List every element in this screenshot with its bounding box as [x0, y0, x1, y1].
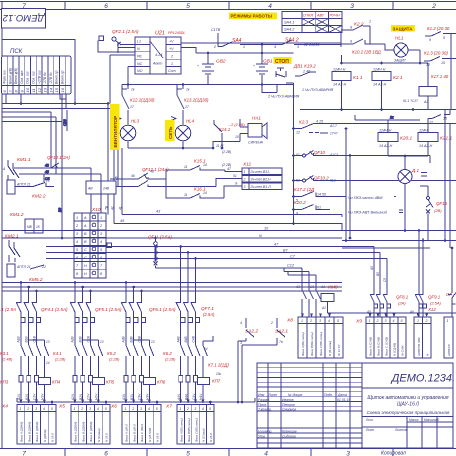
frame bottom — [0, 449, 456, 456]
svg-text:3: 3 — [194, 407, 196, 411]
svg-text:Н4Ч: Н4Ч — [199, 393, 203, 400]
svg-text:N (ДВ4К): N (ДВ4К) — [43, 429, 47, 442]
svg-text:5: 5 — [186, 451, 190, 456]
K16.1 contact — [178, 186, 242, 198]
svg-text:1: 1 — [243, 45, 245, 49]
connector X11 — [227, 162, 282, 190]
svg-text:Alarm: Alarm — [152, 62, 162, 66]
svg-text:К20.1: К20.1 — [400, 136, 412, 142]
svg-text:А2: А2 — [321, 306, 326, 310]
svg-text:4: 4 — [148, 407, 150, 411]
KM1.1 contactor contacts — [2, 157, 31, 180]
switch SA2.1 — [242, 318, 288, 402]
svg-text:PE: PE — [137, 55, 142, 59]
svg-text:13: 13 — [100, 340, 104, 344]
svg-text:КМ8: КМ8 — [328, 285, 338, 291]
svg-text:11: 11 — [184, 165, 188, 169]
svg-text:Х5: Х5 — [58, 404, 65, 410]
node wire y53 — [196, 53, 294, 85]
stamp DEMO rotated box top-left — [2, 9, 46, 29]
svg-text:ЩАУ-16.0: ЩАУ-16.0 — [397, 402, 419, 408]
KM1 coil — [7, 180, 15, 194]
terminal strip X6 — [110, 404, 161, 445]
svg-text:(2.2В): (2.2В) — [165, 358, 176, 362]
K13.2 contact above HL4 — [177, 85, 209, 149]
svg-text:С1В: С1В — [32, 335, 36, 342]
svg-text:14: 14 — [48, 87, 53, 92]
svg-text:КП6: КП6 — [157, 380, 166, 385]
svg-text:Фаза А (САВ): Фаза А (САВ) — [369, 337, 373, 356]
svg-text:1: 1 — [74, 407, 76, 411]
svg-text:ДЕМО.12: ДЕМО.12 — [2, 12, 45, 23]
label РЕЖИМЫ РАБОТЫ — [229, 13, 277, 20]
svg-text:Щиток автоматики и управления: Щиток автоматики и управления — [367, 395, 449, 401]
contact K2.3 — [294, 120, 456, 136]
coil bracket wiring — [355, 110, 450, 170]
svg-text:+: + — [197, 64, 199, 68]
lamp HL3 — [116, 117, 140, 141]
svg-text:А1-?: А1-? — [329, 124, 337, 128]
svg-text:С12: С12 — [287, 264, 295, 268]
svg-text:Фаза В (ДВ4К): Фаза В (ДВ4К) — [27, 422, 31, 442]
svg-text:15: 15 — [441, 61, 445, 65]
svg-text:К10.2 (2В 1ВД: К10.2 (2В 1ВД — [352, 50, 381, 55]
svg-text:5: 5 — [443, 36, 445, 40]
svg-text:14 А2-Н: 14 А2-Н — [373, 83, 387, 87]
svg-text:51: 51 — [233, 174, 237, 178]
svg-text:КП3: КП3 — [0, 380, 9, 385]
breaker QF10-1 — [294, 150, 431, 157]
svg-text:Подп.: Подп. — [324, 393, 333, 397]
svg-text:Х6: Х6 — [110, 404, 117, 410]
frame top header — [0, 2, 456, 10]
svg-text:КМ2.1: КМ2.1 — [5, 234, 19, 240]
svg-text:СЕТЬ: СЕТЬ — [168, 126, 173, 139]
svg-text:12: 12 — [296, 131, 300, 135]
frame left edge — [1, 10, 3, 449]
svg-text:3: 3 — [89, 407, 91, 411]
PSK terminal block — [2, 49, 72, 94]
KM5.2 label — [29, 277, 43, 283]
svg-text:С4Ч: С4Ч — [192, 393, 196, 400]
svg-text:С2В: С2В — [86, 335, 90, 342]
wire drops from PSK — [6, 94, 66, 109]
svg-text:(2В): (2В) — [434, 208, 442, 213]
svg-text:14 А2-Н: 14 А2-Н — [379, 144, 393, 148]
svg-text:4: 4 — [43, 407, 45, 411]
svg-text:(2.2В): (2.2В) — [222, 150, 231, 154]
terminal strip X9 — [355, 317, 406, 358]
svg-text:14: 14 — [203, 163, 207, 167]
svg-text:В1Ч: В1Ч — [25, 393, 29, 400]
svg-text:N (СДАВ): N (СДАВ) — [393, 343, 397, 356]
svg-text:6: 6 — [104, 451, 108, 456]
svg-text:(2.2В): (2.2В) — [109, 358, 120, 362]
svg-text:А5: А5 — [370, 266, 374, 271]
svg-text:АВТ: АВТ — [316, 14, 325, 18]
svg-text:Com: Com — [168, 69, 176, 73]
svg-text:6: 6 — [104, 3, 108, 10]
svg-text:А1С?: А1С? — [329, 153, 338, 157]
svg-text:Н: Н — [84, 272, 87, 276]
svg-text:5: 5 — [186, 3, 190, 10]
svg-text:Фаза А (ДВ5К): Фаза А (ДВ5К) — [74, 422, 78, 442]
svg-text:Зч-тел.В31-: Зч-тел.В31- — [251, 170, 271, 174]
svg-text:22: 22 — [45, 179, 50, 183]
svg-text:Фаза А (ДВ4К): Фаза А (ДВ4К) — [20, 422, 24, 442]
svg-text:17: 17 — [185, 105, 189, 109]
svg-text:42: 42 — [110, 206, 114, 210]
svg-text:Фаза В(ВК,сеть): Фаза В(ВК,сеть) — [310, 332, 314, 356]
svg-text:К2.1: К2.1 — [393, 75, 403, 81]
svg-text:14: 14 — [203, 191, 207, 195]
breaker QF7.1 branch 4 — [176, 245, 230, 403]
svg-text:К20.2: К20.2 — [294, 200, 306, 205]
svg-text:2: 2 — [431, 3, 436, 10]
svg-text:КМ1.2: КМ1.2 — [10, 212, 24, 218]
svg-text:Фаза В (ДВ5К): Фаза В (ДВ5К) — [81, 422, 85, 442]
svg-text:N 16.0: N 16.0 — [51, 433, 55, 442]
svg-text:В3В: В3В — [130, 336, 134, 343]
contact K17.2 — [294, 187, 397, 203]
svg-text:Схема электрическая принципиал: Схема электрическая принципиальная — [367, 410, 450, 415]
svg-text:Осв. сш: Осв. сш — [32, 71, 36, 84]
relay coil K1.1 — [332, 63, 363, 110]
svg-text:1к: 1к — [186, 88, 190, 92]
svg-text:А3В: А3В — [122, 336, 126, 344]
svg-text:Вент.у(В): Вент.у(В) — [14, 68, 18, 84]
svg-text:10к: 10к — [216, 372, 222, 376]
svg-text:13: 13 — [43, 87, 48, 92]
terminal strip X12 — [414, 317, 431, 358]
svg-text:QF10: QF10 — [314, 150, 326, 155]
svg-text:+V: +V — [169, 40, 174, 44]
svg-text:QF16: QF16 — [436, 201, 448, 206]
PSU block 24V — [86, 181, 116, 194]
svg-text:№ докум.: № докум. — [288, 393, 303, 397]
K15/K16 branch wiring — [158, 170, 242, 198]
svg-text:14: 14 — [204, 347, 208, 351]
svg-text:ВЕНТИЛЯТОР: ВЕНТИЛЯТОР — [113, 116, 118, 148]
svg-text:С: С — [84, 248, 87, 252]
svg-text:Х12: Х12 — [427, 307, 436, 312]
breaker QF3.1 partial label — [0, 307, 16, 312]
contactor KM8 — [284, 268, 342, 317]
contact K20.2 — [294, 200, 404, 216]
switch SA2.2 — [238, 318, 258, 402]
svg-text:А3: А3 — [295, 285, 300, 289]
svg-text:ЗАЩИТА: ЗАЩИТА — [393, 26, 414, 31]
svg-text:1: 1 — [20, 407, 22, 411]
long wire bundle center — [2, 227, 456, 259]
breaker QF17 partial right edge — [446, 247, 456, 317]
svg-text:Фаза С(В5,сеть): Фаза С(В5,сеть) — [194, 418, 198, 442]
svg-text:5: 5 — [105, 407, 107, 411]
wire C12 step — [287, 264, 295, 268]
svg-text:3: 3 — [319, 319, 321, 323]
svg-text:АПТЛ 21: АПТЛ 21 — [16, 183, 31, 187]
svg-text:А4В: А4В — [177, 336, 181, 344]
svg-text:К1.2 (20 30: К1.2 (20 30 — [427, 26, 450, 31]
svg-text:41: 41 — [118, 206, 122, 210]
svg-text:Фаза С(ВБ,сеть): Фаза С(ВБ,сеть) — [319, 332, 323, 356]
svg-text:АПТЛ 21: АПТЛ 21 — [16, 265, 31, 269]
svg-text:РУЧН: РУЧН — [330, 14, 340, 18]
yellow label SET — [165, 120, 175, 141]
svg-text:Зч-тел.В21+: Зч-тел.В21+ — [251, 178, 271, 182]
wire bus under PSK — [2, 103, 108, 105]
svg-text:4: 4 — [240, 321, 242, 325]
svg-text:4: 4 — [268, 3, 272, 10]
svg-text:К1.1 ?С1?: К1.1 ?С1? — [403, 99, 418, 103]
relay coil K20.1 — [378, 129, 412, 149]
svg-text:46: 46 — [131, 174, 135, 178]
svg-text:А1В: А1В — [17, 336, 21, 344]
svg-text:16: 16 — [60, 87, 65, 92]
svg-text:3: 3 — [350, 3, 354, 10]
K12.2 contact above HL3 — [122, 85, 155, 149]
svg-text:2: 2 — [270, 321, 273, 325]
svg-text:+27В сш: +27В сш — [37, 70, 41, 84]
svg-text:QF8.1: QF8.1 — [396, 295, 409, 300]
svg-text:QF7.1: QF7.1 — [201, 306, 214, 311]
svg-text:5: 5 — [209, 407, 211, 411]
svg-text:Вент.пр: Вент.пр — [61, 70, 65, 84]
svg-text:4: 4 — [264, 451, 268, 456]
svg-text:24В: 24В — [102, 187, 110, 191]
svg-text:7: 7 — [22, 451, 26, 456]
STOP button — [274, 57, 292, 77]
svg-text:9: 9 — [350, 26, 352, 30]
svg-text:N (Сдвиг): N (Сдвиг) — [97, 428, 101, 442]
svg-text:А: А — [83, 216, 87, 220]
K1.3 contact — [424, 51, 456, 68]
svg-text:Лит.: Лит. — [365, 418, 374, 422]
svg-text:Н.контр.: Н.контр. — [258, 430, 272, 434]
svg-text:1: 1 — [447, 319, 449, 323]
svg-text:А1: А1 — [320, 285, 325, 289]
svg-text:-27В бс: -27В бс — [49, 72, 53, 84]
svg-text:Фаза С (ДВ4К): Фаза С (ДВ4К) — [35, 422, 39, 442]
svg-text:АВ: АВ — [87, 187, 93, 191]
svg-text:5: 5 — [51, 407, 53, 411]
svg-text:Фаза С (ДВ5К): Фаза С (ДВ5К) — [89, 422, 93, 442]
svg-text:Х11: Х11 — [242, 162, 252, 168]
wires K1.1/K2.1 — [300, 55, 456, 110]
yellow label VENTILATOR — [110, 104, 120, 150]
breaker QF8.1 — [366, 247, 409, 318]
svg-text:С1Ч: С1Ч — [33, 393, 37, 400]
svg-text:К21.1: К21.1 — [440, 136, 452, 142]
svg-text:КМ2.2: КМ2.2 — [32, 194, 46, 200]
QF10.1 small breaker mid-left — [47, 155, 70, 168]
svg-text:5: 5 — [337, 319, 339, 323]
svg-text:Х4: Х4 — [1, 404, 8, 410]
svg-text:14 А2-Н: 14 А2-Н — [419, 144, 433, 148]
siren HA1 — [228, 116, 267, 145]
svg-text:2: 2 — [376, 319, 379, 323]
svg-text:GB2: GB2 — [216, 59, 226, 65]
svg-text:11: 11 — [31, 88, 36, 92]
svg-text:С4В: С4В — [191, 335, 195, 342]
svg-text:Осв. сш: Осв. сш — [26, 71, 30, 84]
svg-text:Фаза А(В5,сеть): Фаза А(В5,сеть) — [180, 418, 184, 442]
svg-text:47: 47 — [227, 167, 231, 171]
svg-text:N: N — [259, 234, 262, 238]
svg-text:14 А2-Н: 14 А2-Н — [333, 83, 347, 87]
svg-text:13: 13 — [151, 340, 155, 344]
svg-text:ДЕМО.1234.: ДЕМО.1234. — [390, 373, 455, 385]
svg-text:L1: L1 — [137, 40, 141, 44]
svg-text:3: 3 — [297, 45, 299, 49]
svg-text:(2.4В): (2.4В) — [2, 358, 13, 362]
svg-text:1: 1 — [171, 62, 173, 66]
svg-text:1: 1 — [417, 319, 419, 323]
svg-text:(2А): (2А) — [398, 301, 406, 306]
svg-text:В2Ч: В2Ч — [79, 393, 83, 400]
svg-text:2: 2 — [186, 407, 189, 411]
svg-text:Фаза С (САВ): Фаза С (САВ) — [385, 337, 389, 356]
svg-text:Фаза С (ВК.0: Фаза С (ВК.0 — [140, 424, 144, 442]
svg-text:СВ3: СВ3 — [63, 119, 67, 126]
terminal strip X5 — [58, 404, 110, 445]
svg-text:NO: NO — [137, 69, 143, 73]
svg-text:(2.5А): (2.5А) — [430, 301, 442, 306]
svg-text:4: 4 — [328, 319, 330, 323]
svg-text:А2В: А2В — [71, 336, 75, 344]
C1TB node label — [211, 28, 221, 47]
svg-text:7в: 7в — [279, 340, 283, 344]
svg-text:Ж-САМ: Ж-САМ — [401, 345, 405, 357]
breaker QF16 right — [420, 186, 448, 241]
svg-text:1: 1 — [76, 216, 78, 220]
svg-text:2: 2 — [131, 407, 134, 411]
svg-text:12АЧ-Н: 12АЧ-Н — [373, 68, 386, 72]
svg-text:4-24: 4-24 — [155, 53, 162, 57]
left verticals from PSK to lower — [14, 94, 122, 238]
svg-text:К12.2(2Д30): К12.2(2Д30) — [130, 98, 155, 103]
svg-text:Осв. вкл.: Осв. вкл. — [20, 70, 24, 84]
svg-text:К13.2(2Д30): К13.2(2Д30) — [184, 98, 209, 103]
svg-text:PPL240DL: PPL240DL — [168, 31, 185, 35]
svg-text:4: 4 — [100, 240, 102, 244]
svg-text:...2 (2.5В): ...2 (2.5В) — [228, 123, 245, 127]
svg-text:10: 10 — [235, 135, 239, 139]
wire 45 — [114, 219, 295, 225]
svg-text:17Ч?: 17Ч? — [330, 132, 338, 136]
svg-text:QF10.1(2А): QF10.1(2А) — [47, 155, 70, 160]
svg-text:В3Ч: В3Ч — [130, 393, 134, 400]
terminal strip X8 — [286, 317, 343, 358]
svg-text:Х10: Х10 — [91, 207, 101, 213]
K1.2 contact — [425, 26, 456, 110]
svg-text:Х9: Х9 — [355, 319, 362, 325]
wire labels and strip arrows for motor branches — [17, 335, 205, 403]
svg-text:2к: 2к — [389, 116, 394, 120]
svg-text:3: 3 — [140, 407, 142, 411]
svg-text:Разраб.: Разраб. — [258, 398, 270, 402]
svg-text:Х7: Х7 — [165, 404, 172, 410]
wire N right — [342, 312, 456, 314]
SA4 switch — [213, 38, 254, 49]
svg-text:5: 5 — [156, 407, 158, 411]
svg-text:ПСК: ПСК — [10, 49, 23, 55]
svg-text:Масштаб: Масштаб — [424, 418, 439, 422]
svg-text:61: 61 — [317, 206, 321, 210]
svg-text:КП7: КП7 — [212, 379, 221, 384]
svg-text:QF11 (2.5А): QF11 (2.5А) — [148, 235, 172, 240]
svg-text:N 16.0: N 16.0 — [105, 433, 109, 442]
svg-text:9: 9 — [350, 40, 352, 44]
breaker QF10-2 — [294, 176, 456, 183]
terminal strip X7 — [165, 404, 214, 445]
svg-text:Лист: Лист — [365, 428, 375, 432]
svg-text:ЗАЩИТ: ЗАЩИТ — [394, 59, 407, 63]
svg-text:HL3: HL3 — [131, 119, 140, 124]
main bus — [2, 241, 456, 292]
svg-text:48: 48 — [150, 170, 154, 174]
svg-text:ОТКЛ: ОТКЛ — [303, 14, 314, 18]
terminal strip X4 — [1, 404, 56, 445]
svg-text:4: 4 — [274, 45, 276, 49]
mode table SA4 — [282, 12, 342, 33]
svg-text:14 56: 14 56 — [317, 193, 326, 197]
K15.1 contact — [178, 159, 242, 172]
svg-text:3: 3 — [346, 451, 350, 456]
svg-text:Лист: Лист — [268, 393, 278, 397]
svg-text:5: 5 — [401, 319, 403, 323]
svg-text:КМ1.1: КМ1.1 — [17, 157, 31, 163]
svg-text:46: 46 — [114, 176, 118, 180]
svg-text:12АЧ-Н: 12АЧ-Н — [379, 129, 392, 133]
svg-text:N: N — [137, 47, 140, 51]
svg-text:46: 46 — [45, 170, 49, 174]
KM2.1 contacts — [5, 234, 46, 278]
svg-text:2: 2 — [170, 55, 173, 59]
terminal strip X13 partial — [444, 317, 453, 358]
svg-text:РЕЖИМЫ РАБОТЫ: РЕЖИМЫ РАБОТЫ — [231, 14, 272, 19]
svg-text:.1 (2.5А: .1 (2.5А — [0, 307, 16, 312]
svg-text:(2.5А): (2.5А) — [203, 312, 215, 317]
svg-text:Вент.пр: Вент.пр — [55, 70, 59, 84]
breaker QF9.1 — [409, 229, 442, 317]
svg-text:КП5: КП5 — [106, 380, 115, 385]
svg-text:В5: В5 — [376, 272, 380, 276]
svg-text:Н3Ч: Н3Ч — [145, 393, 149, 400]
wire 43 — [122, 210, 342, 215]
svg-text:К1.1: К1.1 — [353, 75, 363, 81]
svg-text:К3.1: К3.1 — [0, 351, 9, 356]
svg-text:Фаза сш: Фаза сш — [3, 70, 7, 84]
svg-text:12АЧ-Н: 12АЧ-Н — [333, 68, 346, 72]
svg-text:220В/1В: 220В/1В — [447, 344, 451, 357]
wire steps to lower left — [2, 112, 62, 122]
svg-text:С1ТВ: С1ТВ — [211, 28, 221, 32]
svg-text:В9: В9 — [58, 208, 62, 212]
SA4.2 switch — [254, 38, 341, 54]
svg-text:+V: +V — [169, 47, 174, 51]
svg-text:Фаза В (САВ): Фаза В (САВ) — [377, 337, 381, 356]
svg-text:53: 53 — [296, 179, 300, 183]
svg-text:1: 1 — [301, 319, 303, 323]
lamp HL4 — [171, 117, 195, 141]
K17.1 contact and coil — [403, 63, 450, 125]
svg-text:Ж 12 РУ: Ж 12 РУ — [337, 343, 341, 357]
breaker QF4.1 branch 1 — [0, 281, 68, 403]
svg-text:К1.3 (20 30): К1.3 (20 30) — [424, 51, 448, 56]
svg-text:13: 13 — [46, 340, 50, 344]
svg-text:К6.2: К6.2 — [163, 351, 172, 356]
